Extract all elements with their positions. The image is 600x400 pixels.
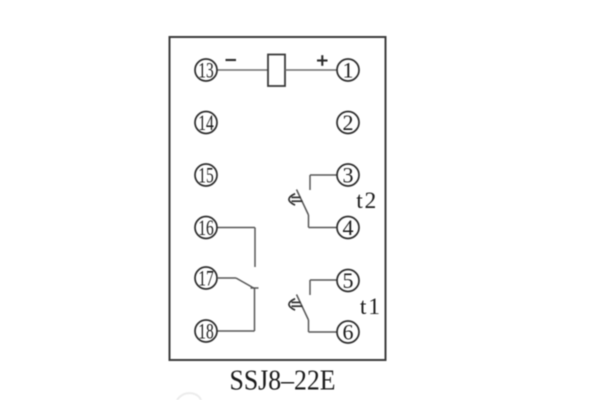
svg-text:4: 4 (343, 215, 354, 240)
svg-text:5: 5 (343, 268, 354, 293)
svg-text:2: 2 (343, 110, 354, 135)
svg-text:17: 17 (198, 265, 214, 290)
svg-text:6: 6 (343, 319, 354, 344)
svg-text:18: 18 (198, 318, 214, 343)
svg-text:16: 16 (198, 215, 214, 240)
svg-text:14: 14 (198, 110, 214, 135)
svg-text:t1: t1 (360, 294, 382, 320)
svg-text:15: 15 (198, 162, 214, 187)
svg-text:t2: t2 (356, 188, 378, 214)
svg-text:SSJ8–22E: SSJ8–22E (230, 365, 336, 397)
svg-text:3: 3 (343, 162, 354, 187)
svg-text:13: 13 (198, 57, 214, 82)
svg-text:1: 1 (343, 57, 354, 82)
